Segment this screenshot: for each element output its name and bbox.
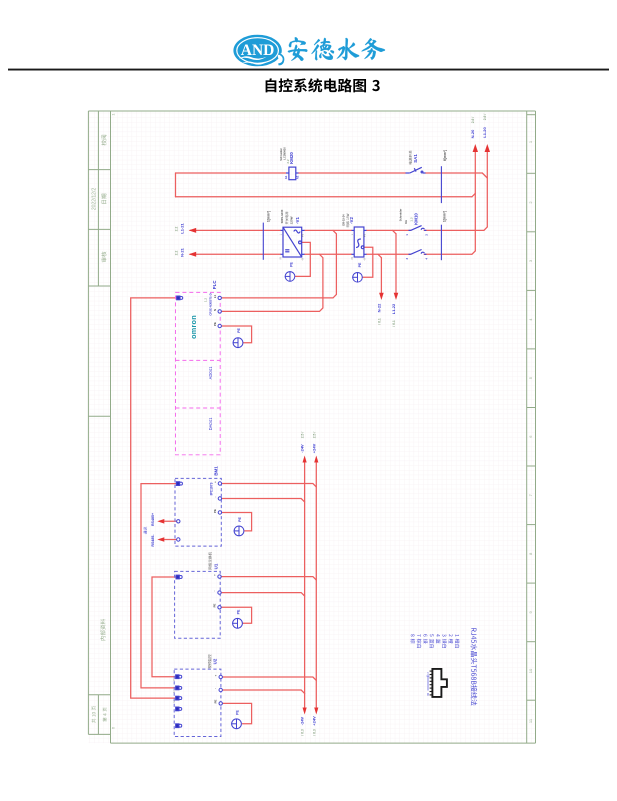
svg-text:N-22: N-22 [376, 303, 381, 312]
wire -24V rail [304, 463, 306, 707]
svg-text:PE: PE [235, 710, 239, 715]
terminal BM1 plus [218, 482, 221, 485]
frame top border [88, 110, 535, 112]
title strip mid border upper [97, 111, 99, 286]
right strip zone tick 6 [527, 407, 536, 409]
svg-text:A2: A2 [295, 175, 299, 179]
wire N bottom bus chamfer [472, 193, 475, 196]
plug U2 in3 [176, 696, 182, 700]
wire L1 top bus seg1 [176, 172, 287, 174]
header rule [8, 69, 609, 71]
label SA1 function 电源开关 [409, 150, 412, 164]
wire L1-20 vertical [486, 152, 488, 227]
wire row3 N seg4 [424, 253, 472, 255]
terminal BM1 minus [218, 497, 221, 500]
label U2 function 视频监控 [208, 654, 211, 668]
label U1 function 网络交换机 [208, 552, 211, 570]
arrow L1-22 down [394, 293, 399, 300]
terminal U2 minus [219, 688, 222, 691]
svg-text:-: - [214, 688, 218, 689]
svg-text:6[mm²]: 6[mm²] [443, 150, 447, 161]
terminal BM1 RS485 minus [177, 538, 180, 541]
svg-text:PE: PE [238, 517, 242, 522]
terminal U2 PE [219, 702, 222, 705]
company logo ellipse [233, 35, 284, 67]
wire N-22 vertical [380, 258, 382, 293]
sheet title text [266, 78, 380, 92]
wire BM1 minus [222, 499, 305, 502]
HMI BM1 dashed box [175, 478, 221, 546]
title strip row line 3 [88, 285, 110, 287]
svg-text:DA041: DA041 [208, 417, 213, 430]
svg-text:L1-20: L1-20 [482, 127, 487, 138]
svg-text:/ 6.1: / 6.1 [377, 318, 381, 325]
wire BM1 PE run [222, 513, 252, 531]
terminal U1 PE [218, 606, 221, 609]
PLC enclosure dashed box [176, 292, 221, 454]
wire L1 top bus chamfer to L1-20 [482, 173, 487, 178]
svg-text:AD041: AD041 [208, 366, 213, 379]
wire N-22 branch chamfer [378, 254, 381, 257]
label T568B pin 4 蓝 [436, 634, 440, 643]
plug U2 in2 [176, 686, 182, 690]
title strip text 内部资料 [100, 619, 105, 641]
title strip text 第4页 [103, 707, 107, 721]
svg-text:+V: +V [363, 234, 366, 237]
plug U1 com [176, 575, 182, 579]
monitor U2 dashed box [174, 669, 221, 736]
label T568B pin 5 蓝白 [430, 634, 435, 648]
RJ45 pin numbering dimension line [427, 676, 430, 691]
title strip row line 1 [88, 169, 110, 171]
frame right outer border [535, 111, 537, 743]
arrow +24V rail up [314, 456, 318, 463]
title strip text 日期 [101, 194, 106, 204]
label V1 function 开关电源 [285, 212, 288, 225]
wire PLC N feed [221, 254, 323, 311]
wire PLC com to U2 [131, 298, 177, 698]
wire row3 N seg1 [190, 253, 281, 255]
terminal U1 plus [218, 575, 221, 578]
title strip outer border [87, 111, 89, 734]
ground PE for PLC [233, 338, 243, 348]
label T568B pin 2 橙 [449, 634, 454, 643]
wire row3 N seg3 [367, 253, 411, 255]
cable marker W2 [440, 166, 442, 203]
svg-text:Schneider: Schneider [279, 148, 283, 161]
svg-text:L1-22: L1-22 [391, 303, 396, 314]
terminals [176, 296, 223, 728]
wire L1-22 branch chamfer [393, 230, 396, 233]
wire N-20 chamfer to row3 [472, 251, 475, 254]
arrow row3 to sheet left [189, 252, 197, 257]
terminal U1 minus [218, 591, 221, 594]
right strip zone tick 9 [527, 582, 536, 584]
arrow BM1 RS485+ left [157, 519, 164, 524]
wire N bottom bus [176, 196, 472, 198]
svg-text:PE: PE [289, 262, 293, 267]
wire N-20 vertical [474, 152, 476, 251]
right strip zone tick 8 [527, 524, 536, 526]
svg-text:1.2: 1.2 [204, 298, 208, 303]
svg-text:-24V: -24V [300, 444, 305, 453]
ground PE for U1 [232, 618, 242, 628]
company name 安德水务 [288, 37, 385, 60]
arrow +24V rail down [314, 708, 318, 715]
plug PLC com [177, 296, 183, 300]
svg-text:PLC: PLC [212, 280, 217, 290]
label T568B pin 1 橙白 [455, 634, 460, 648]
title strip text 共10页 [92, 706, 96, 723]
svg-text:2022/12/2: 2022/12/2 [92, 188, 98, 210]
svg-text:8: 8 [427, 693, 429, 697]
frame right inner border [526, 111, 528, 743]
right strip zone tick 4 [527, 289, 536, 291]
svg-text:1[mm²]: 1[mm²] [443, 211, 447, 222]
svg-text:omron: omron [189, 315, 198, 339]
svg-text:2.2: 2.2 [175, 251, 179, 256]
power supply V1 body [281, 227, 305, 257]
svg-text:N: N [351, 257, 354, 259]
right strip zone tick 3 [527, 231, 536, 233]
svg-text:L1-21: L1-21 [179, 223, 184, 234]
arrow source L1-20 up 2 [485, 144, 490, 152]
right strip zone tick 7 [527, 465, 536, 467]
svg-text:-V1: -V1 [295, 217, 300, 224]
svg-text:PE: PE [214, 700, 218, 704]
svg-text:RS485-: RS485- [151, 534, 155, 547]
drawing sheet grid [88, 111, 535, 743]
svg-text:-: - [213, 496, 217, 497]
svg-text:BM1: BM1 [213, 466, 218, 476]
label T568B pin 8 棕 [410, 634, 415, 643]
svg-text:+V: +V [301, 234, 304, 237]
svg-text:1: 1 [427, 672, 429, 676]
label T568B pin 6 绿 [423, 634, 428, 643]
svg-text:N: N [213, 309, 217, 311]
svg-text:10: 10 [528, 668, 533, 673]
wire top loop left vertical [175, 173, 177, 197]
power supply V2 body [352, 227, 367, 257]
label BM1 comm 通讯 [144, 527, 147, 534]
right strip zone tick 10 [527, 641, 536, 643]
wire row2 L1 seg1 [190, 229, 281, 231]
frame left inner border [110, 111, 112, 743]
arrow BM1 RS485- left [157, 537, 164, 542]
cable marker W1 [262, 223, 264, 260]
wire V1 PE run [295, 242, 310, 276]
arrow -24V rail up [303, 456, 307, 463]
wire L1 top bus seg2 [299, 172, 406, 174]
terminal BM1 RS485 plus [177, 520, 180, 523]
svg-text:-V2: -V2 [349, 217, 354, 224]
title strip bottom line [88, 733, 110, 735]
wire L1-20 chamfer to row2 [484, 227, 487, 231]
wire PLC PE run [221, 326, 252, 343]
title strip row line 5 [88, 694, 110, 696]
ground PE for V2 [352, 272, 362, 282]
svg-text:2.2: 2.2 [286, 159, 290, 164]
svg-text:-V: -V [363, 258, 366, 261]
right strip zone tick 1 [527, 114, 536, 116]
svg-text:1[mm²]: 1[mm²] [267, 211, 271, 222]
label RJ45 caption [471, 628, 477, 705]
svg-text:+24V: +24V [311, 716, 316, 726]
right strip zone tick 5 [527, 348, 536, 350]
plug U2 in4 [176, 707, 182, 711]
wire U1 plus [220, 577, 316, 580]
svg-text:N: N [280, 257, 283, 259]
svg-text:IPC1073: IPC1073 [210, 482, 214, 495]
title strip text 审核 [101, 252, 106, 263]
wire V2 PE run [363, 247, 373, 277]
svg-text:S8FS-G150: S8FS-G150 [280, 209, 284, 223]
svg-text:LC1N0910: LC1N0910 [282, 147, 286, 160]
right strip zone tick 2 [527, 172, 536, 174]
wire U2 plus [222, 677, 317, 680]
svg-text:RS485+: RS485+ [151, 513, 155, 526]
wire L1 top bus seg3 [426, 172, 483, 174]
svg-text:CP2E-N30DT1-D: CP2E-N30DT1-D [208, 293, 212, 315]
wire PLC L feed [221, 230, 337, 298]
svg-text:/ 6.3: / 6.3 [312, 729, 316, 736]
wire U1 minus [220, 593, 305, 596]
right strip zone tick 11 [527, 699, 536, 701]
svg-text:2.2: 2.2 [175, 227, 179, 232]
svg-text:KM10: KM10 [414, 213, 419, 225]
title strip mid border lower [97, 695, 99, 735]
svg-text:/ 6.3: / 6.3 [301, 729, 305, 736]
svg-text:U2: U2 [212, 658, 217, 664]
ground PE for BM1 [234, 526, 244, 536]
drawing frame (green) [88, 111, 535, 743]
contact KM10 pole 3-4 [409, 250, 427, 255]
svg-text:PE: PE [213, 322, 217, 326]
label V2 maker 明纬15W [346, 214, 349, 227]
cable marker W3 [440, 225, 442, 261]
svg-text:2.5 /: 2.5 / [312, 432, 316, 439]
svg-text:PE: PE [213, 604, 217, 608]
svg-text:SA1: SA1 [413, 154, 418, 163]
wire row2 L1 seg2 [305, 229, 352, 231]
svg-text:L1: L1 [213, 294, 217, 298]
plug U2 in5 [176, 724, 182, 728]
title strip row line 4 [88, 415, 110, 417]
arrow N-22 down [379, 293, 384, 300]
terminal PLC N [218, 310, 221, 313]
wire BM1 RS485 minus stub [164, 539, 178, 541]
wire U2 PE run [222, 703, 252, 723]
label T568B pin 3 绿白 [442, 634, 447, 648]
ground PE for U2 [231, 719, 241, 729]
wire BM1 plus [222, 484, 317, 487]
svg-text:N-20: N-20 [470, 129, 475, 138]
svg-text:Schneider: Schneider [398, 209, 402, 222]
contact KM10 pole 1-2 [409, 226, 427, 231]
terminal BM1 PE [218, 511, 221, 514]
wire U1 com to U2 [152, 577, 176, 677]
svg-text:A1: A1 [284, 175, 288, 179]
svg-text:-: - [213, 590, 217, 591]
terminal U2 plus [219, 675, 222, 678]
switch SA1 [406, 167, 426, 173]
title strip row line 2 [88, 228, 110, 230]
svg-text:2.6 /: 2.6 / [471, 117, 475, 124]
wire BM1 com to U2 [141, 484, 177, 688]
svg-text:-24V: -24V [300, 716, 305, 725]
ground PE for V1 [285, 271, 295, 281]
svg-text:PE: PE [236, 609, 240, 614]
arrow -24V rail down [303, 708, 307, 715]
svg-text:DR-15-24: DR-15-24 [342, 214, 346, 226]
svg-text:PE: PE [213, 509, 217, 513]
frame bottom border [111, 742, 536, 744]
arrow row2 to sheet left [189, 228, 197, 233]
wire L1-22 vertical [395, 234, 397, 293]
svg-text:PE: PE [358, 262, 362, 267]
wire +24V rail [315, 463, 317, 707]
terminal PLC L1 [218, 296, 221, 299]
svg-text:120W: 120W [290, 216, 294, 224]
wire U2 minus [222, 690, 305, 693]
wire row2 L1 seg3 [367, 229, 411, 231]
svg-text:/ 6.1: / 6.1 [392, 320, 396, 327]
wire BM1 RS485 plus stub [164, 520, 178, 522]
title strip text 校阅 [101, 135, 106, 146]
terminal PLC PE [218, 324, 221, 327]
wire row3 N seg2 [305, 253, 352, 255]
label T568B pin 7 棕白 [417, 634, 422, 648]
svg-text:2.5 /: 2.5 / [301, 432, 305, 439]
svg-text:1.3: 1.3 [410, 217, 414, 222]
wire U1 PE run [220, 607, 252, 623]
plug BM1 com [176, 482, 182, 486]
RJ45 connector icon [432, 669, 447, 697]
svg-text:2.6 /: 2.6 / [483, 114, 487, 121]
svg-text:PE: PE [237, 328, 241, 333]
svg-text:N-21: N-21 [179, 247, 184, 256]
switch U1 dashed box [175, 571, 221, 638]
arrow source L1-20 up [473, 144, 478, 152]
svg-text:-V: -V [301, 258, 304, 261]
svg-text:U1: U1 [214, 563, 219, 569]
wire row2 L1 seg4 [424, 229, 484, 231]
plug U2 in1 [176, 675, 182, 679]
svg-text:+24V: +24V [311, 443, 316, 453]
contactor coil KM20 [286, 167, 299, 180]
